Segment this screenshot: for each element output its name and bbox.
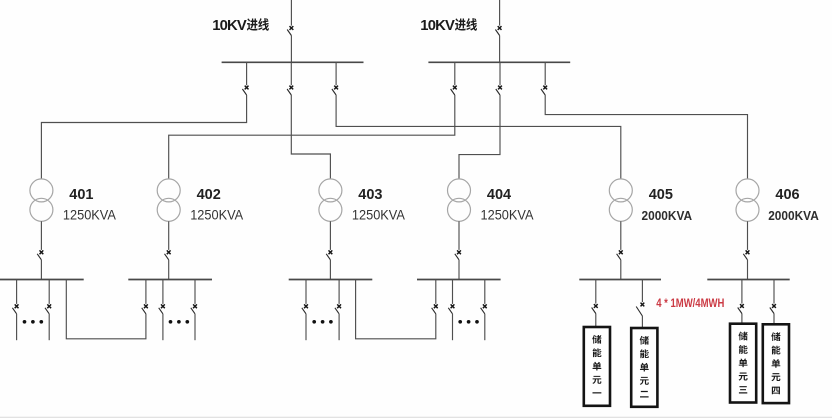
LV breaker below transformer 402	[168, 221, 170, 250]
ellipsis dots bus 1	[23, 320, 44, 324]
LV busbar section 5	[579, 279, 661, 281]
wire from HV bus to T402	[169, 95, 455, 179]
transformer 405 (two-winding symbol)	[609, 179, 632, 221]
storage feeder breaker 4	[773, 280, 775, 304]
LV feeder breaker at bus 4	[484, 280, 486, 304]
LV feeder breaker at bus 1	[48, 280, 50, 304]
LV breaker below transformer 404	[458, 221, 460, 250]
label 10KV进线 (left)	[212, 18, 269, 34]
svg-text:1250KVA: 1250KVA	[352, 207, 406, 223]
svg-text:1250KVA: 1250KVA	[63, 207, 117, 223]
storage feeder breaker 1	[595, 280, 597, 304]
svg-text:404: 404	[487, 187, 511, 203]
HV feeder breaker for T405	[335, 62, 337, 85]
HV feeder breaker for T406	[544, 62, 546, 85]
wire	[458, 260, 460, 280]
LV feeder breaker at bus 2	[162, 280, 164, 304]
LV breaker below transformer 403	[329, 221, 331, 250]
tie breaker at bus 4	[435, 280, 437, 304]
wire from HV bus to T406	[545, 95, 747, 179]
HV feeder breaker for T403	[290, 62, 292, 85]
wire from HV bus to T405	[336, 95, 621, 179]
svg-text:405: 405	[649, 187, 673, 203]
wire from HV bus to T403	[291, 95, 330, 179]
svg-text:10KV: 10KV	[420, 18, 455, 34]
storage unit box 3 储能单元三	[730, 324, 756, 403]
HV feeder breaker for T402	[454, 62, 456, 85]
ellipsis dots bus 4	[458, 320, 479, 324]
incoming line 1 10KV	[290, 0, 292, 26]
LV busbar section 6	[707, 279, 789, 281]
breaker QF1 on incoming 1	[287, 26, 293, 35]
bus tie link 1 (bus1-bus2)	[66, 280, 146, 339]
wire	[620, 260, 622, 280]
breaker QF2 on incoming 2	[495, 26, 501, 35]
LV breaker below transformer 406	[747, 221, 749, 250]
HV feeder breaker for T404	[499, 62, 501, 85]
wire	[168, 260, 170, 280]
LV busbar section 3	[289, 279, 373, 281]
transformer 406 (two-winding symbol)	[736, 179, 759, 221]
LV breaker below transformer 401	[40, 221, 42, 250]
svg-text:1250KVA: 1250KVA	[190, 207, 244, 223]
LV feeder breaker at bus 1	[16, 280, 18, 304]
storage unit box 4 储能单元四	[763, 324, 789, 403]
wire	[329, 260, 331, 280]
wire	[499, 36, 501, 63]
LV feeder breaker at bus 4	[452, 280, 454, 304]
svg-text:2000KVA: 2000KVA	[642, 208, 693, 223]
ellipsis dots bus 3	[312, 320, 332, 324]
svg-text:401: 401	[69, 187, 93, 203]
ellipsis dots bus 2	[169, 320, 190, 324]
svg-text:10KV: 10KV	[212, 18, 247, 34]
LV breaker below transformer 405	[620, 221, 622, 250]
wire from HV bus to T404	[459, 95, 500, 179]
storage unit box 2 储能单元二	[631, 328, 657, 407]
HV busbar section 2	[428, 61, 570, 63]
transformer 403 (two-winding symbol)	[319, 179, 342, 221]
wire	[40, 260, 42, 280]
label 10KV进线 (right)	[420, 18, 477, 34]
svg-text:1250KVA: 1250KVA	[481, 207, 535, 223]
transformer 404 (two-winding symbol)	[448, 179, 471, 221]
storage feeder breaker 2	[641, 280, 643, 303]
HV busbar section 1	[222, 61, 364, 63]
bus tie link 2 (bus3-bus4)	[356, 280, 436, 339]
tie breaker at bus 2	[145, 280, 147, 304]
wire	[747, 260, 749, 280]
transformer 402 (two-winding symbol)	[157, 179, 180, 221]
incoming line 2 10KV	[499, 0, 501, 26]
LV feeder breaker at bus 2	[194, 280, 196, 304]
svg-text:406: 406	[775, 187, 799, 203]
LV feeder breaker at bus 3	[305, 280, 307, 304]
LV feeder breaker at bus 3	[338, 280, 340, 304]
LV busbar section 4	[417, 279, 501, 281]
svg-text:403: 403	[358, 187, 382, 203]
storage feeder breaker 3	[741, 280, 743, 304]
LV busbar section 2	[128, 279, 212, 281]
transformer 401 (two-winding symbol)	[30, 179, 53, 221]
LV busbar section 1	[0, 279, 84, 281]
wire from HV bus to T401	[41, 95, 246, 179]
storage unit box 1 储能单元一	[584, 327, 610, 406]
HV feeder breaker for T401	[246, 62, 248, 85]
svg-text:402: 402	[197, 187, 221, 203]
svg-text:4 * 1MW/4MWH: 4 * 1MW/4MWH	[656, 296, 724, 310]
wire	[290, 36, 292, 63]
svg-text:2000KVA: 2000KVA	[768, 208, 819, 223]
